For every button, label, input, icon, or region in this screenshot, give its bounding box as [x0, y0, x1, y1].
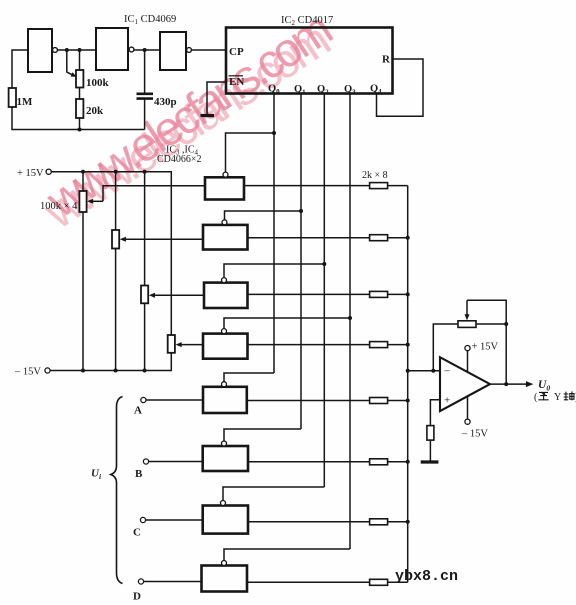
svg-text:ybx8.cn: ybx8.cn [395, 568, 458, 585]
potentiometer P4 100k [168, 335, 175, 353]
analog switch S3 [204, 283, 248, 308]
svg-text:CP: CP [229, 46, 244, 58]
svg-text:IC1 CD4069: IC1 CD4069 [124, 14, 176, 26]
svg-text:+: + [444, 395, 450, 407]
svg-text:Q1: Q1 [294, 84, 306, 97]
node 20k bottom [78, 128, 82, 132]
analog switch S6 [203, 446, 248, 471]
wire S7 control [223, 487, 324, 500]
wire Q1 vertical [300, 94, 302, 430]
node 100k wiper tap [65, 48, 69, 52]
wire Q3 vertical [349, 94, 351, 550]
wire S2 output [248, 237, 370, 239]
wire S1 output [244, 185, 370, 187]
wire S3 control [224, 264, 324, 278]
analog switch S7 [203, 506, 248, 534]
wire S2 control [225, 211, 302, 220]
wire feedback right [476, 323, 506, 325]
svg-text:D: D [133, 591, 141, 603]
svg-text:430p: 430p [154, 96, 177, 108]
resistor R5 2k [370, 398, 388, 404]
input terminal B [143, 459, 148, 464]
node summing junctions on bus [406, 236, 410, 240]
wire Q2 vertical [323, 94, 325, 488]
wire U1a out to U1b [58, 49, 96, 51]
wire summing bus [407, 186, 409, 583]
resistor 1M [9, 88, 16, 107]
svg-text:C: C [133, 527, 141, 539]
svg-text:IC2 CD4017: IC2 CD4017 [281, 15, 333, 27]
input terminal D [138, 579, 143, 584]
svg-text:Y: Y [554, 392, 561, 403]
IC U2 CD4017 box [226, 28, 393, 94]
resistor 20k [79, 88, 81, 100]
wire EN to ground [207, 82, 226, 114]
node -15V rail taps [81, 369, 85, 373]
resistor R4 2k [370, 342, 388, 348]
power +15V op-amp [465, 346, 470, 351]
analog switch S1 [205, 177, 244, 199]
wire S1 control [226, 133, 275, 172]
wire feedback left [433, 324, 458, 371]
resistor R8 2k [370, 579, 388, 585]
svg-text:100k × 4: 100k × 4 [40, 201, 78, 212]
ground op-amp [421, 460, 439, 463]
svg-text:EN: EN [229, 76, 244, 88]
resistor R9 [427, 426, 434, 441]
svg-text:Q3: Q3 [344, 84, 356, 97]
node capacitor top [143, 48, 147, 52]
potentiometer P3 100k [144, 172, 146, 286]
wire S6 output [248, 461, 370, 463]
potentiometer RP feedback [458, 321, 476, 328]
analog switch S2 [203, 225, 248, 250]
svg-text:−: − [444, 366, 450, 378]
analog switch S5 [203, 387, 247, 413]
input terminal C [140, 517, 145, 522]
svg-text:Q2: Q2 [317, 84, 329, 97]
wire U1c out to CP [192, 49, 226, 51]
svg-text:100k: 100k [86, 77, 110, 89]
svg-text:Q4: Q4 [370, 84, 382, 97]
node +15V rail taps [81, 170, 85, 174]
resistor R1 2k [370, 183, 388, 189]
wire S5 control [224, 373, 274, 382]
wire inverting input [408, 370, 440, 372]
resistor R2 2k [370, 235, 388, 241]
wire oscillator input loop left [12, 50, 145, 130]
potentiometer P1 100k [82, 172, 84, 191]
wire S8 output [247, 581, 370, 583]
wire non-inverting input [430, 400, 440, 426]
svg-text:Ui: Ui [91, 468, 102, 482]
inverter U1c [160, 32, 186, 70]
svg-text:R: R [382, 54, 391, 66]
capacitor 430p [144, 50, 146, 93]
wire output [490, 383, 527, 385]
potentiometer 100k body [79, 50, 81, 70]
svg-text:+ 15V: + 15V [472, 342, 499, 353]
inverter U1a [28, 29, 52, 72]
power -15V terminal [45, 368, 50, 373]
analog switch S4 [203, 334, 248, 359]
analog switch S8 [202, 566, 248, 592]
watermark www.elecfans.com [30, 3, 344, 239]
wire S6 control [224, 429, 301, 441]
potentiometer P2 100k [115, 172, 117, 230]
wire S5 output [247, 400, 370, 402]
resistor R6 2k [370, 459, 388, 465]
node 100k top [78, 48, 82, 52]
power -15V op-amp [465, 419, 470, 424]
wire -15V rail [50, 353, 171, 371]
svg-text:– 15V: – 15V [14, 367, 41, 378]
wire S7 output [248, 521, 370, 523]
wire S4 control [224, 318, 350, 329]
wire +15V rail [51, 172, 171, 335]
wire U1b out to U1c [134, 49, 160, 51]
svg-text:CD4066×2: CD4066×2 [157, 154, 202, 165]
wire S3 output [248, 293, 370, 295]
ground EN [201, 114, 215, 117]
svg-text:U0: U0 [538, 379, 550, 393]
inverter U1b [96, 28, 128, 70]
power +15V terminal [46, 169, 51, 174]
svg-text:20k: 20k [86, 105, 104, 117]
resistor R3 2k [370, 291, 388, 297]
resistor R7 2k [370, 519, 388, 525]
svg-text:2k × 8: 2k × 8 [362, 170, 388, 181]
wire S8 control [224, 549, 350, 560]
svg-text:– 15V: – 15V [461, 429, 488, 440]
brace Ui [111, 397, 123, 584]
svg-text:1M: 1M [17, 96, 34, 108]
potentiometer 100k wiper arm [67, 50, 73, 75]
wire Q0 vertical [273, 94, 275, 374]
op-amp U3 [440, 357, 490, 411]
svg-text:A: A [134, 405, 142, 417]
svg-text:(: ( [534, 392, 538, 403]
svg-text:B: B [135, 468, 143, 480]
svg-text:+ 15V: + 15V [17, 168, 44, 179]
input terminal A [141, 397, 146, 402]
wire S4 output [248, 344, 370, 346]
wire R to Q4 loop [377, 59, 424, 116]
